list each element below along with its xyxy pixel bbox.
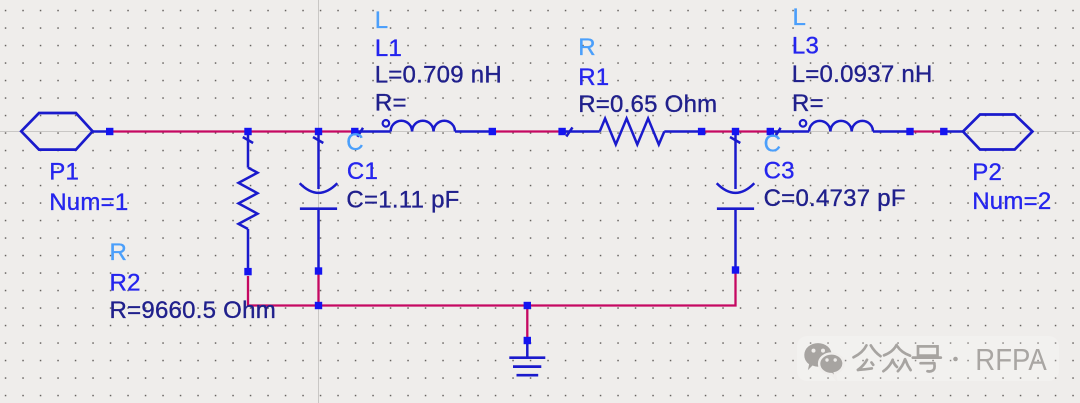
svg-text:L: L: [375, 7, 389, 34]
svg-text:R=: R=: [792, 90, 824, 117]
svg-text:R2: R2: [110, 270, 141, 297]
svg-text:R=: R=: [375, 90, 407, 117]
svg-text:R: R: [578, 34, 596, 61]
svg-text:L: L: [793, 4, 807, 31]
svg-text:R1: R1: [578, 64, 609, 91]
svg-text:C1: C1: [347, 158, 378, 185]
svg-text:C: C: [764, 130, 782, 157]
svg-text:C: C: [346, 129, 364, 156]
svg-text:L=0.0937 nH: L=0.0937 nH: [792, 61, 933, 88]
svg-text:P2: P2: [972, 159, 1002, 186]
svg-text:L3: L3: [792, 33, 819, 60]
svg-text:L=0.709 nH: L=0.709 nH: [375, 62, 502, 89]
svg-text:Num=1: Num=1: [49, 189, 128, 216]
svg-text:C=0.4737 pF: C=0.4737 pF: [764, 185, 906, 212]
svg-text:R=0.65 Ohm: R=0.65 Ohm: [578, 91, 717, 118]
svg-text:Num=2: Num=2: [972, 188, 1051, 215]
svg-text:P1: P1: [49, 158, 79, 185]
svg-text:C=1.11 pF: C=1.11 pF: [346, 187, 459, 214]
svg-text:C3: C3: [764, 158, 795, 185]
svg-text:L1: L1: [375, 35, 402, 62]
svg-text:R: R: [110, 239, 128, 266]
svg-text:R=9660.5 Ohm: R=9660.5 Ohm: [110, 297, 276, 324]
svg-text:RFPA: RFPA: [975, 343, 1047, 377]
